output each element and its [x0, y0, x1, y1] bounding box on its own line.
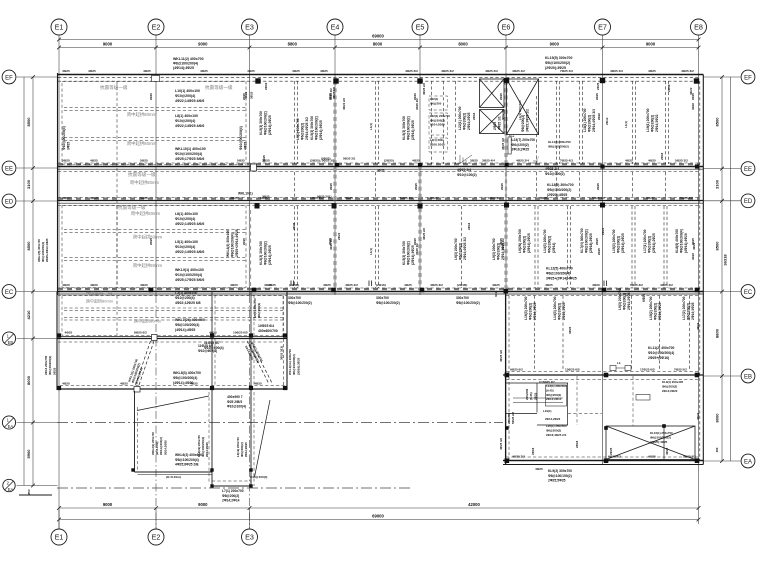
svg-text:E2: E2 — [152, 532, 161, 541]
svg-text:2Φ16: 2Φ16 — [531, 447, 535, 455]
svg-text:4Φ25: 4Φ25 — [88, 69, 96, 73]
svg-text:2Φ16: 2Φ16 — [264, 82, 268, 90]
svg-text:5900: 5900 — [26, 449, 31, 459]
svg-text:WKL10(1) 400x100: WKL10(1) 400x100 — [175, 147, 206, 151]
svg-text:WKL4(4) 300x100: WKL4(4) 300x100 — [226, 230, 230, 257]
grid line E1 — [58, 73, 60, 392]
zone boundary dashed rect EF-EE bay E1-E3 — [62, 82, 246, 165]
svg-text:L7(1) 200x700: L7(1) 200x700 — [222, 489, 244, 493]
svg-text:2Φ25: 2Φ25 — [596, 183, 600, 190]
svg-text:Φ6@200(2): Φ6@200(2) — [546, 428, 561, 432]
secondary beam mid bay E3-E4 (ED-EC) — [294, 206, 296, 288]
svg-text:WKL6(2) 400x600: WKL6(2) 400x600 — [175, 453, 202, 457]
secondary beams bay E5-E6 (EF-EE) — [431, 81, 433, 164]
svg-text:2Φ14;3Φ22: 2Φ14;3Φ22 — [655, 114, 659, 132]
svg-text:3Φ25: 3Φ25 — [67, 142, 71, 150]
svg-text:L9(3) 200x700: L9(3) 200x700 — [492, 238, 496, 260]
svg-text:Φ6@200(2): Φ6@200(2) — [463, 113, 467, 130]
svg-text:200: 200 — [715, 447, 719, 452]
interior beam x=212 left wing — [211, 292, 213, 390]
svg-text:KL9(1) 200x400: KL9(1) 200x400 — [662, 380, 683, 384]
svg-text:2Φ25+(2Φ16): 2Φ25+(2Φ16) — [648, 356, 669, 360]
svg-text:5Φ25: 5Φ25 — [237, 159, 245, 163]
svg-text:EC: EC — [5, 290, 14, 296]
left dimension lines — [23, 77, 25, 486]
svg-text:2Φ25: 2Φ25 — [414, 183, 418, 190]
secondary beams bay E7-E8 (EF-EE) — [632, 81, 634, 164]
svg-text:4Φ25: 4Φ25 — [648, 159, 656, 163]
svg-text:KL5(3) 300x700: KL5(3) 300x700 — [402, 116, 406, 140]
ramp slant in east cell — [255, 400, 271, 477]
svg-text:4Φ22 2/2: 4Φ22 2/2 — [329, 88, 333, 100]
svg-text:Φ8@100/200(4): Φ8@100/200(4) — [231, 233, 235, 257]
svg-text:Φ8@100/200(2): Φ8@100/200(2) — [407, 116, 411, 140]
svg-text:KL9(2) 300x700: KL9(2) 300x700 — [548, 469, 572, 473]
svg-text:(2Φ25);4Φ25: (2Φ25);4Φ25 — [650, 440, 668, 444]
ramp west edge — [134, 391, 136, 472]
room divider horizontal y=413.5 — [506, 413, 538, 415]
zone dashed vertical x=117 left wing — [116, 296, 118, 336]
svg-text:4Φ25 3/2: 4Φ25 3/2 — [499, 350, 503, 362]
svg-text:4Φ25 2/2: 4Φ25 2/2 — [329, 238, 333, 250]
svg-text:L23(T) 200x700: L23(T) 200x700 — [512, 138, 536, 142]
zone boundary dashed vertical x=117 lower band — [116, 206, 118, 288]
outer wall top wing left edge — [57, 73, 59, 295]
svg-text:(2Φ14);2Φ25: (2Φ14);2Φ25 — [268, 115, 272, 135]
svg-text:Φ6@200(2): Φ6@200(2) — [654, 303, 658, 320]
svg-text:3Φ25: 3Φ25 — [568, 326, 572, 334]
svg-text:ED: ED — [5, 199, 14, 205]
svg-text:Φ6@200(2): Φ6@200(2) — [662, 384, 677, 388]
interior beams right wing EC-EB verticals — [534, 296, 536, 372]
boxed label L13 border — [546, 385, 567, 406]
svg-text:4Φ25: 4Φ25 — [404, 283, 412, 287]
svg-text:L1(1): L1(1) — [624, 121, 628, 128]
svg-text:(2Φ14);2Φ25: (2Φ14);2Φ25 — [621, 233, 625, 253]
svg-text:L15(2) 200x700: L15(2) 200x700 — [649, 296, 653, 320]
svg-text:(2Φ1B): (2Φ1B) — [457, 283, 467, 287]
svg-text:300x700: 300x700 — [288, 296, 301, 300]
column strip E5 gray dashes lower — [418, 165, 421, 290]
svg-text:8500: 8500 — [714, 117, 719, 127]
rebar cut double ticks above EC — [290, 281, 292, 287]
svg-text:4Φ22;14Φ25 4/6/6: 4Φ22;14Φ25 4/6/6 — [175, 222, 204, 226]
svg-text:抗震等级一级: 抗震等级一级 — [205, 84, 233, 91]
svg-text:4Φ25: 4Φ25 — [648, 69, 656, 73]
svg-text:4Φ25: 4Φ25 — [209, 331, 217, 335]
svg-text:2Φ14;2Φ25: 2Φ14;2Φ25 — [205, 442, 209, 457]
svg-text:抗震等级一级: 抗震等级一级 — [100, 84, 128, 91]
svg-text:5Φ25 3/1: 5Φ25 3/1 — [343, 157, 356, 161]
svg-text:(2Φ14);2Φ25: (2Φ14);2Φ25 — [527, 233, 531, 253]
svg-text:4Φ22: 4Φ22 — [696, 412, 700, 420]
mid-span label KL14 — [508, 137, 511, 154]
svg-text:9000: 9000 — [646, 42, 656, 47]
svg-text:EC: EC — [744, 290, 753, 296]
svg-text:3Φ2: 3Φ2 — [494, 291, 498, 297]
svg-text:Φ6@200(2): Φ6@200(2) — [651, 115, 655, 132]
secondary beams bay E6-E7 (EF-EE) — [536, 96, 538, 164]
svg-text:L20(1) 250x500: L20(1) 250x500 — [546, 424, 567, 428]
svg-text:4Φ22: 4Φ22 — [665, 447, 669, 455]
room wall x=537 — [536, 383, 538, 413]
svg-text:E1: E1 — [55, 532, 64, 541]
grid line E2 lower centerline — [155, 295, 157, 529]
svg-text:5Φ25: 5Φ25 — [140, 159, 148, 163]
svg-text:Φ10@100/200(4): Φ10@100/200(4) — [175, 152, 202, 156]
svg-text:4Φ20: 4Φ20 — [90, 283, 98, 287]
svg-text:KL5(3) 300x700: KL5(3) 300x700 — [402, 241, 406, 265]
stair symbol near E5 EE — [459, 155, 461, 164]
svg-text:L9(3) 200x700: L9(3) 200x700 — [454, 238, 458, 260]
svg-text:EE: EE — [5, 166, 13, 172]
svg-text:(4Φ14);4Φ25: (4Φ14);4Φ25 — [175, 328, 195, 332]
svg-text:4Φ25: 4Φ25 — [377, 169, 385, 173]
svg-text:L3(1) 400x100: L3(1) 400x100 — [175, 291, 197, 295]
grid line E3 lower centerline — [249, 295, 251, 529]
svg-text:Φ8@100/200(4): Φ8@100/200(4) — [173, 62, 198, 66]
svg-text:2Φ14;3Φ25: 2Φ14;3Φ25 — [691, 302, 695, 320]
svg-text:3Φ25: 3Φ25 — [430, 196, 438, 200]
grid line E7 — [602, 73, 604, 465]
svg-text:Φ8@200(2): Φ8@200(2) — [222, 494, 239, 498]
aux axis 1/EA dash-dot centerline — [57, 422, 503, 424]
svg-text:2Φ14;2Φ14: 2Φ14;2Φ14 — [546, 397, 562, 401]
svg-text:9000: 9000 — [550, 42, 560, 47]
svg-text:L16(3) 200x700: L16(3) 200x700 — [524, 296, 528, 320]
svg-text:WKL7(2k) 400x900: WKL7(2k) 400x900 — [175, 318, 205, 322]
svg-text:3Φ25: 3Φ25 — [540, 196, 548, 200]
beam axis EF top edge — [58, 74, 704, 76]
retaining wall stub line bottom-left — [19, 494, 52, 496]
svg-text:L9(2N) 200x700: L9(2N) 200x700 — [518, 229, 522, 253]
svg-text:(4Φ14);4Φ20: (4Φ14);4Φ20 — [684, 233, 688, 253]
svg-text:跨中起拱80mm: 跨中起拱80mm — [133, 234, 163, 241]
opening X-cell right wing EB-EA — [606, 426, 695, 460]
svg-text:跨中起拱80mm: 跨中起拱80mm — [130, 179, 160, 186]
svg-text:WKL9(1) 400x100: WKL9(1) 400x100 — [175, 268, 204, 272]
stair symbol near E6 EE — [530, 162, 538, 164]
svg-text:L8(1) 400x100: L8(1) 400x100 — [175, 212, 198, 216]
svg-text:跨中起拱80mm: 跨中起拱80mm — [133, 262, 163, 269]
svg-text:2Φ25: 2Φ25 — [242, 238, 246, 245]
secondary beam dashed pair y=233 — [64, 229, 246, 231]
svg-text:3100: 3100 — [714, 179, 719, 189]
svg-text:E1: E1 — [55, 22, 64, 31]
svg-text:E7: E7 — [598, 22, 607, 31]
svg-text:4Φ25;8Φ25 2/B: 4Φ25;8Φ25 2/B — [175, 463, 199, 467]
svg-text:2Φ25: 2Φ25 — [691, 238, 695, 245]
diagonal beam 1 left wing (dashed pair, down-left) — [135, 341, 151, 388]
svg-text:2Φ16: 2Φ16 — [467, 222, 471, 230]
beam axis EB in right wing — [503, 374, 703, 376]
svg-text:4Φ25: 4Φ25 — [90, 159, 98, 163]
svg-text:(2Φ14);3Φ25: (2Φ14);3Φ25 — [319, 120, 323, 140]
secondary beam mid bay E3-E4 (EF-EE) — [294, 81, 296, 164]
svg-text:4Φ22;14Φ25 4/6/6: 4Φ22;14Φ25 4/6/6 — [175, 99, 204, 103]
ramp lower box bottom — [212, 485, 251, 487]
svg-text:(2Φ25): (2Φ25) — [384, 159, 394, 163]
grid line E6 — [505, 73, 507, 465]
svg-text:EB: EB — [8, 340, 14, 345]
svg-text:4Φ20: 4Φ20 — [140, 283, 148, 287]
svg-text:2Φ14;3Φ25: 2Φ14;3Φ25 — [658, 302, 662, 320]
secondary beam dashed y=318 left wing — [64, 317, 283, 319]
svg-text:5Φ25 3/2: 5Φ25 3/2 — [680, 196, 693, 200]
svg-text:8500: 8500 — [714, 241, 719, 251]
svg-text:2Φ25: 2Φ25 — [691, 93, 695, 100]
svg-text:4Φ25: 4Φ25 — [492, 283, 500, 287]
svg-text:8000: 8000 — [714, 413, 719, 423]
white column box at E2 on 1/EB — [152, 335, 158, 341]
svg-text:Φ8@100/200(4): Φ8@100/200(4) — [175, 323, 199, 327]
svg-text:4Φ20: 4Φ20 — [62, 382, 70, 386]
svg-text:2Φ16 2Φ16: 2Φ16 2Φ16 — [430, 142, 445, 146]
svg-text:4Φ25 2/2: 4Φ25 2/2 — [422, 228, 426, 240]
svg-text:Φ6@200(2): Φ6@200(2) — [588, 115, 592, 132]
svg-text:EA: EA — [8, 487, 14, 492]
svg-text:4Φ25: 4Φ25 — [545, 283, 553, 287]
svg-text:6Φ25: 6Φ25 — [642, 294, 646, 302]
svg-text:(2Φ20);3Φ25: (2Φ20);3Φ25 — [545, 66, 566, 70]
small box L7 near E7 — [636, 395, 650, 401]
svg-text:E6: E6 — [502, 22, 511, 31]
svg-text:KL13(5) 300x700: KL13(5) 300x700 — [547, 183, 574, 187]
svg-text:L19(1): L19(1) — [543, 409, 552, 413]
svg-text:8800: 8800 — [714, 328, 719, 338]
svg-text:4Φ25: 4Φ25 — [625, 159, 633, 163]
svg-text:4Φ25 3/2: 4Φ25 3/2 — [441, 69, 454, 73]
svg-text:3Φ25 2/2: 3Φ25 2/2 — [501, 238, 505, 250]
svg-text:L17(2) 200x700: L17(2) 200x700 — [682, 296, 686, 320]
svg-text:8500: 8500 — [26, 241, 31, 251]
svg-text:Φ10@100/200(4): Φ10@100/200(4) — [648, 351, 674, 355]
beam EF inner edge dashed — [58, 77, 700, 79]
columns EC row — [149, 288, 154, 293]
bottom dimension line spans — [59, 507, 699, 509]
svg-text:3Φ25: 3Φ25 — [260, 196, 268, 200]
svg-text:2Φ14;4Φ25 3/2: 2Φ14;4Φ25 3/2 — [463, 237, 467, 260]
diagonal beam label 2 — [244, 342, 264, 366]
svg-text:2Φ25+2Φ14;4Φ25: 2Φ25+2Φ14;4Φ25 — [45, 238, 49, 262]
room divider horizontal y=425 — [537, 424, 568, 426]
columns left wing — [57, 333, 61, 337]
svg-text:Φ6@200(2): Φ6@200(2) — [301, 123, 305, 140]
svg-text:2Φ14;4Φ25 3/2: 2Φ14;4Φ25 3/2 — [305, 117, 309, 140]
svg-text:EA: EA — [744, 459, 752, 465]
svg-text:Φ6@200(2): Φ6@200(2) — [623, 293, 627, 310]
svg-text:11Φ25 6/7: 11Φ25 6/7 — [198, 344, 214, 348]
svg-text:4210: 4210 — [26, 310, 31, 320]
svg-text:Φ10@00/200(4): Φ10@00/200(4) — [239, 126, 243, 150]
svg-text:2Φ25: 2Φ25 — [609, 447, 613, 455]
svg-text:跨中起拱80mm: 跨中起拱80mm — [127, 111, 157, 118]
svg-text:4Φ25 2/2: 4Φ25 2/2 — [345, 283, 358, 287]
svg-text:4Φ20: 4Φ20 — [592, 283, 600, 287]
svg-text:Φ10@100(4): Φ10@100(4) — [250, 475, 267, 479]
svg-text:4Φ25 2/4: 4Φ25 2/4 — [457, 168, 471, 172]
svg-text:42000: 42000 — [468, 502, 480, 507]
svg-text:E5: E5 — [416, 22, 425, 31]
svg-text:L15(3) 200x700: L15(3) 200x700 — [612, 229, 616, 253]
svg-text:(2Φ20);4Φ25: (2Φ20);4Φ25 — [547, 193, 567, 197]
svg-text:4Φ25;17Φ25 5/6/6: 4Φ25;17Φ25 5/6/6 — [175, 157, 204, 161]
svg-text:4Φ25: 4Φ25 — [120, 382, 128, 386]
svg-text:4Φ25 4/2: 4Φ25 4/2 — [512, 69, 525, 73]
svg-text:跨中起拱80mm: 跨中起拱80mm — [134, 318, 162, 324]
secondary beam mid bay E4-E5 (ED-EC) — [375, 206, 377, 288]
svg-text:4Φ25: 4Φ25 — [140, 196, 148, 200]
svg-text:2Φ14;2Φ14: 2Φ14;2Φ14 — [222, 499, 240, 503]
column strip E3 gray dashes lower — [249, 210, 251, 288]
svg-text:8000: 8000 — [26, 375, 31, 385]
ramp box inner lines — [212, 480, 251, 482]
svg-text:2Φ14;4Φ25 3/3: 2Φ14;4Φ25 3/3 — [592, 109, 596, 132]
bottom dimension total 69000 — [59, 519, 699, 521]
svg-text:2Φ16: 2Φ16 — [575, 440, 579, 448]
svg-text:5Φ25 3/2: 5Φ25 3/2 — [310, 196, 323, 200]
svg-text:3Φ25 3/(1): 3Φ25 3/(1) — [280, 346, 284, 360]
top dimension line spans — [59, 47, 699, 49]
top bubble stems — [58, 35, 60, 73]
beam axis ED — [58, 200, 704, 202]
svg-text:300x700: 300x700 — [501, 109, 505, 120]
svg-text:Φ6@200(2): Φ6@200(2) — [648, 236, 652, 253]
ramp middle edge — [211, 389, 213, 486]
svg-text:9000: 9000 — [103, 502, 113, 507]
svg-text:(4Φ14);4Φ25: (4Φ14);4Φ25 — [173, 66, 194, 70]
svg-text:2Φ14;3Φ25: 2Φ14;3Φ25 — [562, 302, 566, 320]
svg-text:69000: 69000 — [372, 514, 384, 519]
Lb stair mark boxes on EB — [610, 366, 616, 371]
svg-text:10Φ25 6/4: 10Φ25 6/4 — [258, 324, 274, 328]
svg-text:EF: EF — [744, 75, 752, 81]
grid line E5 — [419, 73, 421, 295]
svg-text:4Φ25 2/4: 4Φ25 2/4 — [545, 167, 559, 171]
svg-text:L19(1) 200x700: L19(1) 200x700 — [646, 108, 650, 132]
svg-text:Φ6@200(2): Φ6@200(2) — [558, 303, 562, 320]
svg-text:Φ6@200: Φ6@200 — [430, 101, 442, 105]
svg-text:Φ10@100(2): Φ10@100(2) — [457, 173, 477, 177]
beam axis EE — [58, 166, 704, 168]
beam ED heavy gray dash row — [58, 198, 700, 200]
svg-text:Φ25 2/B/5: Φ25 2/B/5 — [227, 400, 242, 404]
svg-text:Φ8@100/200(2): Φ8@100/200(2) — [548, 144, 569, 148]
svg-text:5Φ25 3/2: 5Φ25 3/2 — [400, 196, 413, 200]
svg-text:(2Φ0B): (2Φ0B) — [289, 283, 299, 287]
svg-text:2Φ14;2Φ25: 2Φ14;2Φ25 — [244, 442, 248, 457]
svg-text:4Φ22;14Φ25 4/6/6: 4Φ22;14Φ25 4/6/6 — [175, 250, 204, 254]
svg-text:EA: EA — [8, 424, 14, 429]
columns ramp — [131, 468, 134, 471]
stair opening large X-cell right of E6 — [507, 79, 539, 135]
svg-text:Lb: Lb — [617, 361, 621, 365]
svg-text:4Φ25 2/2: 4Φ25 2/2 — [415, 243, 419, 255]
corridor EE-ED short beams — [294, 172, 296, 197]
svg-text:2Φ25: 2Φ25 — [329, 183, 333, 190]
secondary beam L8 dashed pair y=139 — [64, 137, 246, 139]
svg-text:Φ8@100/200(2): Φ8@100/200(2) — [547, 188, 571, 192]
svg-text:2Φ25: 2Φ25 — [597, 248, 601, 255]
svg-text:跨中起拱80mm: 跨中起拱80mm — [86, 298, 114, 304]
svg-text:4Φ25: 4Φ25 — [190, 382, 198, 386]
svg-text:Φ10@200(4): Φ10@200(4) — [175, 296, 195, 300]
left grid bubbles — [2, 70, 16, 84]
beam EC heavy gray dash row — [58, 288, 700, 290]
svg-text:4Φ25;17Φ25 5/6/6: 4Φ25;17Φ25 5/6/6 — [175, 278, 204, 282]
svg-text:4Φ25 4/3: 4Φ25 4/3 — [610, 69, 623, 73]
svg-text:抗震等级一级: 抗震等级一级 — [118, 204, 146, 211]
svg-text:1Le: 1Le — [509, 134, 515, 138]
svg-text:4Φ25: 4Φ25 — [323, 283, 331, 287]
svg-text:3100: 3100 — [26, 179, 31, 189]
svg-text:EE: EE — [744, 167, 752, 173]
svg-text:2Φ25: 2Φ25 — [292, 222, 296, 230]
svg-text:5Φ25 3/2: 5Φ25 3/2 — [592, 196, 605, 200]
svg-text:4Φ22: 4Φ22 — [691, 103, 695, 110]
svg-text:(2Φ14): (2Φ14) — [552, 243, 556, 253]
zone dashed rect EC-1/EB bay — [62, 296, 283, 336]
svg-text:8500: 8500 — [26, 117, 31, 127]
svg-text:4Φ25 3/2: 4Φ25 3/2 — [499, 438, 503, 450]
svg-text:4Φ25: 4Φ25 — [254, 382, 262, 386]
svg-text:2Φ25: 2Φ25 — [149, 93, 153, 100]
beam lines LT below EB near E7 — [513, 397, 563, 399]
column strip E6 gray dashes lower — [504, 206, 507, 288]
svg-text:E8: E8 — [694, 22, 703, 31]
svg-text:2Φ25: 2Φ25 — [52, 367, 56, 375]
svg-text:WKL8(3) 400x700: WKL8(3) 400x700 — [173, 371, 201, 375]
svg-text:KL15(5) 300x700: KL15(5) 300x700 — [545, 56, 572, 60]
svg-text:(2Φ03): (2Φ03) — [321, 157, 330, 161]
svg-text:3Φ25;3Φ25 2/2: 3Φ25;3Φ25 2/2 — [526, 109, 530, 132]
svg-text:Φ8@100/200(2): Φ8@100/200(2) — [407, 241, 411, 265]
svg-text:3Φ25 4/4: 3Φ25 4/4 — [482, 159, 495, 163]
svg-text:Φ10@200(4): Φ10@200(4) — [175, 119, 195, 123]
svg-text:Φ8@200(2): Φ8@200(2) — [521, 115, 525, 132]
svg-text:10Φ25 6/5: 10Φ25 6/5 — [233, 331, 248, 335]
right wing west edge — [505, 292, 507, 466]
svg-text:4Φ25: 4Φ25 — [648, 455, 656, 459]
svg-text:2Φ16: 2Φ16 — [667, 84, 671, 92]
svg-text:Φ6@200(2): Φ6@200(2) — [257, 303, 261, 318]
svg-text:EB: EB — [744, 374, 752, 380]
svg-text:(H=8.10m): (H=8.10m) — [166, 475, 181, 479]
svg-text:2Φ25: 2Φ25 — [533, 392, 537, 400]
svg-text:9000: 9000 — [198, 502, 208, 507]
ramp bottom edge double — [135, 471, 213, 473]
svg-text:2Φ25: 2Φ25 — [595, 238, 599, 245]
secondary beams bay E6-E7 (ED-EC) — [534, 206, 536, 288]
svg-text:2Φ14;2Φ20: 2Φ14;2Φ20 — [163, 440, 167, 455]
diagonal beam label 1 — [127, 358, 146, 385]
svg-text:3Φ25+(2Φ14);4Φ25: 3Φ25+(2Φ14);4Φ25 — [546, 276, 577, 280]
right axis leader lines — [703, 76, 740, 78]
zone boundary dashed rect ED-EC bay E1-E3 — [62, 206, 246, 288]
svg-text:Φ8@100/200(4): Φ8@100/200(4) — [175, 458, 199, 462]
svg-text:4Φ25: 4Φ25 — [244, 142, 248, 150]
svg-text:Φ6@200(2): Φ6@200(2) — [512, 143, 529, 147]
svg-text:5Φ25 3/2: 5Φ25 3/2 — [683, 455, 696, 459]
svg-text:4Φ25: 4Φ25 — [62, 196, 70, 200]
svg-text:L1(1): L1(1) — [369, 248, 373, 255]
svg-text:KL12(5) 400x700: KL12(5) 400x700 — [546, 267, 573, 271]
svg-text:Φ8@100/200(2): Φ8@100/200(2) — [264, 111, 268, 135]
svg-text:4Φ22: 4Φ22 — [691, 253, 695, 260]
svg-text:WKL11(2) 400x700: WKL11(2) 400x700 — [173, 57, 204, 61]
column notch at E2 on EF beam — [152, 76, 160, 82]
svg-text:Φ8@100/200(4): Φ8@100/200(4) — [173, 376, 197, 380]
